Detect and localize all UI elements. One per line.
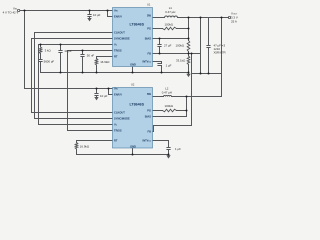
svg-text:SYNC/MODE: SYNC/MODE (114, 117, 130, 121)
svg-text:CLKOUT: CLKOUT (114, 31, 125, 35)
svg-text:100kΩ: 100kΩ (165, 104, 174, 108)
svg-text:TR/SS: TR/SS (114, 129, 122, 133)
svg-text:1 µF: 1 µF (166, 63, 172, 67)
svg-text:EN/UV: EN/UV (114, 15, 122, 19)
svg-text:LT8646S: LT8646S (130, 22, 145, 26)
svg-text:0.47 µH: 0.47 µH (162, 90, 172, 94)
svg-text:5600 pF: 5600 pF (44, 60, 55, 64)
svg-text:25 A: 25 A (231, 19, 237, 23)
svg-text:FB: FB (148, 130, 152, 134)
svg-text:50 nF: 50 nF (87, 53, 95, 57)
svg-text:U2: U2 (131, 82, 135, 86)
svg-text:BIAS: BIAS (145, 115, 151, 119)
svg-text:GND: GND (130, 144, 136, 148)
svg-text:TR/SS: TR/SS (114, 49, 122, 53)
svg-text:X5R/X7R: X5R/X7R (214, 50, 226, 54)
svg-text:PG: PG (147, 109, 151, 113)
svg-text:100kΩ: 100kΩ (165, 23, 174, 27)
svg-text:16.9kΩ: 16.9kΩ (100, 60, 110, 64)
svg-text:GND: GND (130, 62, 136, 66)
svg-text:CLKOUT: CLKOUT (114, 111, 125, 115)
svg-text:FB: FB (148, 52, 152, 56)
svg-text:27 µF: 27 µF (164, 43, 172, 47)
svg-text:4 V TO 42 V: 4 V TO 42 V (3, 10, 19, 14)
svg-text:LT8646S: LT8646S (130, 102, 145, 106)
svg-text:100kΩ: 100kΩ (176, 43, 185, 47)
svg-text:RT: RT (114, 55, 118, 59)
svg-text:10 pF: 10 pF (64, 49, 72, 53)
svg-text:SW: SW (147, 13, 152, 17)
svg-text:RT: RT (114, 139, 118, 143)
svg-text:10 µF: 10 µF (100, 94, 108, 98)
svg-text:U1: U1 (147, 2, 151, 6)
svg-text:16.9kΩ: 16.9kΩ (80, 144, 90, 148)
svg-text:EN/UV: EN/UV (114, 93, 122, 97)
svg-text:BIAS: BIAS (145, 37, 151, 41)
svg-text:1 µF: 1 µF (175, 147, 181, 151)
svg-text:33.1kΩ: 33.1kΩ (176, 59, 186, 63)
svg-text:SW: SW (147, 92, 152, 96)
svg-text:3 kΩ: 3 kΩ (45, 48, 52, 52)
svg-text:10 µF: 10 µF (93, 13, 101, 17)
svg-text:PG: PG (147, 27, 151, 31)
svg-text:0.47 µH: 0.47 µH (165, 10, 175, 14)
svg-text:SYNC/MODE: SYNC/MODE (114, 37, 130, 41)
